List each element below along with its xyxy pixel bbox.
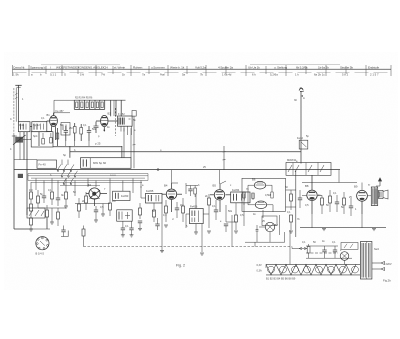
tube socket diagram B — [36, 237, 50, 256]
label heater volts — [257, 264, 296, 281]
wire: left cluster grounds — [29, 206, 68, 231]
resistor R34 — [139, 203, 142, 219]
svg-text:0,1: 0,1 — [125, 225, 129, 228]
resistor R29 — [329, 190, 332, 212]
wire: splitter net — [243, 185, 273, 218]
wire: stage1 bottom row — [53, 128, 122, 158]
svg-text:Fe453: Fe453 — [121, 194, 129, 198]
svg-text:Sp 12: Sp 12 — [33, 123, 40, 127]
ground: riser x162 — [160, 247, 164, 253]
svg-text:R2 R3 R4 R5 R6: R2 R3 R4 R5 R6 — [75, 98, 93, 100]
svg-text:6a 2b 1c: 6a 2b 1c — [314, 72, 325, 76]
capacitor C4 — [64, 126, 68, 141]
svg-text:Fig.2b: Fig.2b — [383, 279, 391, 283]
heater chain bottom rail — [266, 274, 360, 276]
resistor R32 — [307, 244, 310, 258]
capacitor C5 — [87, 126, 91, 141]
svg-text:0,1: 0,1 — [83, 124, 87, 127]
svg-text:Ub Ua 1k: Ub Ua 1k — [248, 65, 260, 69]
tube V2 EF9 — [96, 112, 118, 132]
phase splitter box — [242, 178, 286, 211]
capacitor C27 — [138, 221, 142, 231]
capacitor C25 — [333, 246, 337, 258]
wire: C15 bracket — [61, 231, 68, 237]
switch wafer mark — [18, 174, 23, 178]
capacitor C12 — [94, 206, 98, 222]
resistor R9 — [80, 124, 83, 141]
svg-text:1k 6a 2b: 1k 6a 2b — [318, 65, 329, 69]
svg-text:6,3V: 6,3V — [257, 264, 262, 267]
svg-text:Fe455: Fe455 — [146, 189, 154, 193]
wire: stage risers — [162, 170, 232, 252]
capacitor C13 — [121, 221, 125, 237]
svg-text:4 Spulen 2a: 4 Spulen 2a — [218, 65, 233, 69]
oscillator coil box L4 — [31, 132, 53, 147]
svg-text:S: S — [64, 72, 66, 76]
resistor R30 — [343, 192, 346, 214]
svg-text:0,5: 0,5 — [240, 214, 244, 217]
svg-text:7%: 7% — [101, 72, 106, 76]
svg-text:0,5M: 0,5M — [265, 194, 271, 197]
wire: ground bus right — [300, 214, 386, 231]
svg-text:WIDERSTANDE KONDENS. ABGLEICH: WIDERSTANDE KONDENS. ABGLEICH — [56, 65, 108, 69]
resistor R33 — [194, 186, 197, 198]
grid parts box V1 — [61, 123, 70, 136]
svg-text:p 25: p 25 — [95, 142, 101, 146]
svg-text:Tr: Tr — [368, 184, 370, 187]
wire: antenna shield pair — [14, 88, 18, 135]
wire: det loads — [226, 203, 244, 226]
resistor R26 — [290, 190, 293, 210]
node: bus junction — [157, 169, 159, 171]
resistor R18 — [85, 192, 88, 210]
svg-text:0,5: 0,5 — [100, 206, 104, 209]
resistor R28 — [321, 195, 324, 214]
wire: V1 cathode row — [47, 131, 52, 133]
resistor R35 — [153, 203, 156, 222]
svg-text:Spannung b.: Spannung b. — [30, 65, 46, 69]
svg-text:B3: B3 — [88, 183, 92, 187]
svg-text:1 6a 4d: 1 6a 4d — [222, 72, 232, 76]
svg-text:B8: B8 — [305, 184, 309, 188]
svg-text:0,3: 0,3 — [163, 214, 167, 217]
resistor R25 — [234, 215, 238, 233]
resistor R15 — [37, 190, 40, 208]
value labels — [10, 98, 380, 252]
svg-text:F 41: F 41 — [19, 123, 25, 127]
svg-text:C: C — [10, 118, 12, 121]
svg-text:7b: 7b — [200, 72, 204, 76]
resistor R19 — [78, 198, 81, 218]
wire: PSU link — [245, 230, 290, 247]
svg-text:Fig. 2: Fig. 2 — [176, 264, 185, 268]
capacitor C28 — [155, 218, 159, 230]
shield box V6c — [262, 215, 279, 235]
tube V6a triode — [248, 178, 272, 190]
wire: T1 to band box — [124, 128, 131, 158]
resistor R20 — [109, 188, 112, 216]
trimmer C20 — [297, 136, 308, 149]
ground: riser x202 — [200, 253, 204, 255]
svg-text:B1: B1 — [47, 113, 51, 117]
wire: mains output arrows — [372, 262, 392, 271]
volume control box P1 — [117, 210, 133, 221]
switch S2 MW-LW — [286, 158, 331, 175]
switch contacts wave band — [57, 160, 78, 185]
capacitor C22 — [349, 198, 353, 216]
svg-text:Netz: Netz — [374, 248, 380, 251]
tube V6b triode — [249, 201, 273, 209]
wire: output top rail — [302, 170, 362, 190]
capacitor C18 — [224, 224, 228, 232]
pilot lamp LP1 — [340, 252, 349, 261]
wire: stage2 links — [186, 183, 209, 228]
tube V8 EL3 output — [354, 185, 371, 215]
tube V5 EBF2 — [210, 181, 231, 212]
svg-text:2 1 5 7: 2 1 5 7 — [370, 72, 379, 76]
svg-text:5 b 2: 5 b 2 — [342, 72, 349, 76]
ground: stage2 — [194, 224, 211, 235]
wire: left rail to ground bus — [14, 228, 33, 230]
capacitor C15 — [61, 226, 65, 237]
svg-text:B5: B5 — [213, 184, 217, 188]
svg-text:B1 B2 B3 B4 B5 B6 B8 B9: B1 B2 B3 B4 B5 B6 B8 B9 — [266, 278, 296, 281]
svg-text:7a: 7a — [142, 72, 146, 76]
wire: feedback rail — [286, 170, 296, 237]
resistor R13 — [30, 204, 33, 218]
voltage selector board — [341, 243, 358, 250]
svg-text:B9: B9 — [354, 185, 358, 189]
coil L1 — [18, 122, 30, 132]
svg-text:Strome 5b: Strome 5b — [340, 65, 353, 69]
svg-text:Volt 5,2a: Volt 5,2a — [195, 65, 206, 69]
wire: cable bundle — [28, 174, 148, 186]
wire: bus 152 — [70, 151, 302, 153]
tube V6c indicator — [259, 222, 278, 239]
svg-text:2M: 2M — [69, 127, 72, 130]
svg-text:220V: 220V — [386, 262, 392, 266]
capacitor C6 riser — [132, 111, 136, 169]
svg-text:B6: B6 — [252, 178, 256, 182]
svg-text:0,1 1: 0,1 1 — [50, 72, 57, 76]
svg-text:0,5: 0,5 — [305, 204, 309, 207]
IF transformer T1 — [118, 112, 133, 135]
svg-text:u. Stellung: u. Stellung — [274, 65, 287, 69]
svg-text:B2: B2 — [108, 112, 112, 116]
wire: osc links — [14, 132, 37, 160]
tuning capacitor C1 — [12, 135, 26, 145]
speaker LS — [378, 190, 388, 199]
svg-text:1M: 1M — [29, 189, 32, 192]
tube V1 ECH4 — [47, 109, 71, 140]
svg-text:0,1: 0,1 — [287, 211, 291, 214]
svg-text:Sp4: Sp4 — [33, 135, 38, 138]
tube V4 EF9 IF amp — [162, 183, 182, 212]
svg-text:1%: 1% — [80, 72, 85, 76]
resistor R8 — [73, 123, 76, 141]
switch contact box S3 — [27, 208, 45, 218]
wire: heater feed row — [306, 246, 352, 258]
resistor R36 — [46, 205, 49, 229]
svg-text:1M: 1M — [180, 204, 183, 207]
wire: coupling row — [186, 185, 198, 187]
resistor R24 — [208, 194, 211, 205]
svg-text:5,2/6a: 5,2/6a — [270, 72, 278, 76]
resistor R14 — [30, 218, 33, 229]
svg-text:0,1: 0,1 — [48, 189, 52, 192]
capacitor C16 — [175, 202, 179, 218]
capacitor C21 — [335, 195, 339, 212]
capacitor C11 — [56, 194, 60, 206]
wire: V2 grid network — [94, 122, 99, 134]
svg-text:0,1: 0,1 — [333, 192, 337, 195]
svg-text:u.Summen: u.Summen — [151, 65, 165, 69]
heater chain zigzag — [266, 264, 356, 275]
svg-text:Endstufe: Endstufe — [368, 65, 379, 69]
svg-text:B7: B7 — [275, 223, 279, 227]
wire: bus 169 — [14, 169, 340, 171]
svg-text:el. Werte: el. Werte — [114, 65, 125, 69]
wire: coil interconnect — [24, 127, 39, 215]
IF transformer T3 — [141, 186, 162, 203]
capacitor C24 — [322, 246, 326, 258]
svg-text:A: A — [303, 96, 305, 100]
detector coil T4 — [190, 204, 204, 223]
svg-text:B4: B4 — [164, 184, 168, 188]
heater chain sockets — [268, 266, 359, 273]
svg-text:0,1: 0,1 — [332, 241, 336, 244]
resistor R12 — [30, 182, 33, 204]
svg-text:0,1: 0,1 — [302, 241, 306, 244]
wire: left rail — [13, 135, 15, 229]
wire: riser x224 — [223, 146, 226, 170]
svg-text:Fe 457: Fe 457 — [56, 109, 65, 113]
parts table — [13, 65, 392, 77]
wire: vertical T1 drop — [113, 100, 115, 116]
svg-text:6 k: 6 k — [252, 72, 256, 76]
oscillator box T2 — [113, 191, 130, 200]
svg-text:Fe 40: Fe 40 — [39, 163, 47, 167]
svg-text:Fe456: Fe456 — [190, 204, 198, 208]
heater chain top rail — [266, 263, 360, 265]
wave trap box — [37, 160, 57, 168]
capacitor C19 — [298, 190, 302, 208]
svg-text:%al: %al — [160, 72, 165, 76]
resistor R17 — [65, 188, 68, 206]
svg-text:B 1/4 S: B 1/4 S — [36, 252, 45, 256]
resistor R22 — [164, 200, 168, 227]
output transformer T6 — [371, 187, 377, 206]
svg-text:6k 5,2/6a: 6k 5,2/6a — [296, 65, 308, 69]
IF transformer T5 — [231, 188, 250, 203]
resistor R27 — [289, 215, 293, 233]
coil L2 — [32, 122, 47, 132]
svg-text:0,1: 0,1 — [41, 117, 45, 120]
svg-text:0,3A: 0,3A — [257, 270, 262, 273]
svg-text:0,1: 0,1 — [212, 205, 216, 208]
wire: left cluster bottom — [33, 204, 110, 230]
band selector box S1 — [81, 158, 132, 169]
wire: AVC drops left — [36, 178, 141, 196]
svg-text:5a: 5a — [182, 72, 186, 76]
resistor comb R2-R7 supply divider — [54, 98, 126, 117]
tube V3 ECH4 mixer — [86, 183, 107, 206]
capacitor C10 — [42, 192, 46, 203]
resistor R37 — [57, 208, 60, 226]
svg-text:Fe454: Fe454 — [232, 188, 240, 192]
wire: chain to lamp — [266, 247, 345, 268]
svg-text:1 k: 1 k — [295, 72, 299, 76]
svg-text:Werte b. 1k: Werte b. 1k — [170, 65, 185, 69]
tube V7 EL3 — [302, 175, 322, 214]
shield partition dashed — [114, 108, 116, 136]
svg-text:MW Sp 60: MW Sp 60 — [93, 161, 107, 165]
antenna A1 — [15, 85, 21, 121]
arrow: heater feed — [292, 247, 307, 249]
svg-text:Fe12: Fe12 — [297, 136, 303, 140]
resistor R23 — [182, 198, 185, 222]
wire: bottom dashed bus — [84, 246, 293, 248]
resistor R16 — [51, 188, 54, 205]
capacitor C14 — [129, 221, 133, 237]
svg-text:o o o: o o o — [110, 174, 116, 177]
capacitor C26 — [188, 186, 192, 197]
svg-text:Cema Nr.: Cema Nr. — [13, 65, 25, 69]
svg-text:1 Sk: 1 Sk — [13, 72, 19, 76]
svg-text:1M: 1M — [112, 200, 115, 203]
resistor R21 — [82, 226, 85, 247]
svg-text:Rohren: Rohren — [133, 65, 143, 69]
capacitor C29 — [256, 225, 259, 242]
svg-text:F 452: F 452 — [118, 112, 125, 116]
capacitor C17 — [214, 200, 218, 220]
antenna rod right — [299, 88, 305, 164]
power transformer TR1 — [361, 242, 372, 280]
arrow: B+ up — [376, 177, 382, 186]
